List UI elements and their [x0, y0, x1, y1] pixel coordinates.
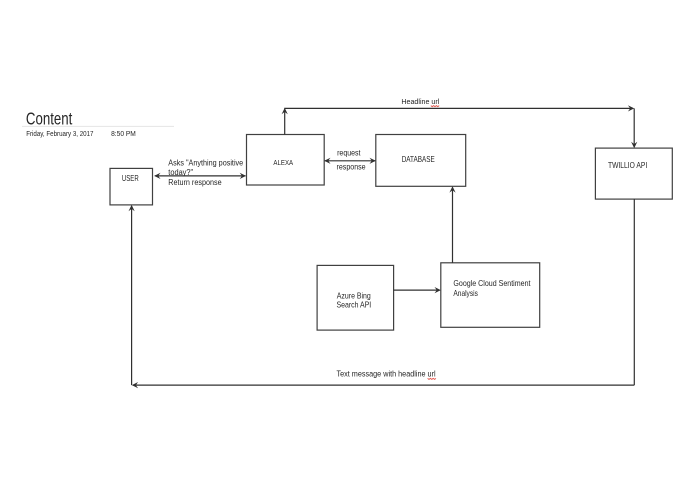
label Text message with headline url: [337, 370, 436, 379]
svg-text:Friday, February 3, 2017: Friday, February 3, 2017: [26, 129, 93, 138]
wire bottom rail horizontal to USER column (arrow left): [132, 382, 635, 388]
box TWILLIO API: [595, 148, 672, 199]
wire USER to ALEXA double arrow: [154, 173, 246, 179]
box Google Cloud Sentiment Analysis: [441, 263, 540, 328]
wire headline rail horizontal (arrow right): [284, 105, 634, 111]
svg-text:DATABASE: DATABASE: [402, 155, 435, 164]
box Azure Bing Search API: [317, 265, 394, 330]
svg-text:Asks "Anything positive: Asks "Anything positive: [168, 158, 243, 167]
svg-text:Return response: Return response: [168, 178, 222, 187]
svg-text:ALEXA: ALEXA: [273, 158, 293, 167]
svg-text:response: response: [337, 162, 367, 171]
svg-text:8:50 PM: 8:50 PM: [111, 129, 136, 138]
page title "Content": [26, 109, 73, 129]
spellcheck squiggle under url (text message): [428, 378, 436, 379]
label Headline url: [401, 97, 439, 106]
svg-text:Search API: Search API: [337, 300, 372, 310]
wire ALEXA to DATABASE double arrow: [324, 158, 376, 164]
svg-text:Content: Content: [26, 109, 73, 129]
wire TWILLIO API down (vertical segment): [633, 199, 635, 385]
box DATABASE: [376, 135, 466, 187]
svg-text:TWILLIO API: TWILLIO API: [608, 161, 647, 170]
date stamp: [26, 129, 136, 138]
label Asks "Anything positive today?" / Return response: [168, 158, 243, 187]
svg-text:Headline url: Headline url: [401, 97, 439, 106]
svg-text:Analysis: Analysis: [453, 288, 478, 298]
box ALEXA: [247, 135, 325, 186]
wire ALEXA top to headline rail (vertical, arrow up): [282, 108, 288, 135]
wire Google Cloud up into DATABASE (arrow up): [449, 186, 455, 262]
spellcheck squiggle under url (headline): [431, 106, 439, 107]
wire Azure Bing to Google Cloud (arrow right): [394, 287, 441, 293]
svg-text:Text message with headline url: Text message with headline url: [337, 370, 436, 379]
svg-text:USER: USER: [122, 174, 139, 183]
wire headline rail down into TWILLIO API (arrow down): [631, 108, 637, 148]
svg-text:request: request: [337, 149, 361, 158]
title underline rule: [22, 125, 174, 127]
label request / response: [337, 149, 367, 172]
box USER: [110, 168, 153, 205]
svg-text:today?": today?": [168, 168, 193, 177]
svg-text:Google Cloud Sentiment: Google Cloud Sentiment: [453, 278, 531, 288]
wire up into USER bottom (arrow up): [129, 205, 135, 385]
